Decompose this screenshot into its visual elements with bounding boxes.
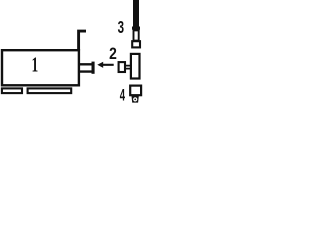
console unit box 1 bbox=[2, 50, 79, 85]
antenna terminal 4 body bbox=[130, 86, 141, 96]
flag bracket on top right of box bbox=[79, 31, 86, 50]
svg-text:1: 1 bbox=[31, 52, 38, 76]
arrow pointing left bbox=[102, 64, 114, 66]
plug neck box bbox=[134, 30, 139, 40]
cable 3 bbox=[133, 0, 139, 27]
arrow head bbox=[97, 62, 103, 68]
connector flange tip bbox=[92, 62, 95, 74]
terminal hole ring bbox=[133, 97, 137, 101]
foot pad left bbox=[2, 88, 22, 93]
plug body box bbox=[132, 41, 140, 47]
plug 2 body bbox=[119, 62, 125, 72]
connector barrel on right side of box bbox=[80, 64, 92, 71]
jack socket tall box bbox=[131, 54, 140, 79]
svg-text:3: 3 bbox=[118, 19, 124, 38]
cable strain relief flare bbox=[132, 27, 140, 30]
antenna terminal 4 base bbox=[132, 96, 139, 103]
svg-text:2: 2 bbox=[109, 45, 117, 63]
terminal hole center bbox=[134, 99, 136, 101]
plug 2 neck bbox=[125, 66, 130, 69]
svg-text:4: 4 bbox=[120, 86, 126, 105]
foot pad right bbox=[28, 88, 72, 93]
